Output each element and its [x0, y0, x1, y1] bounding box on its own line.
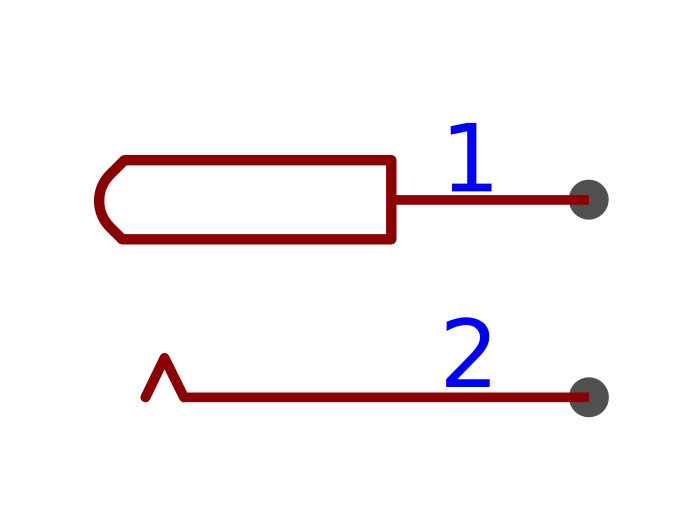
pin 1 wire — [392, 195, 590, 205]
pin number 1 — [451, 123, 492, 192]
connector J1 sleeve body (plug outline) — [99, 160, 391, 239]
pin number 2 — [446, 317, 490, 387]
pin 1 end dot — [569, 180, 609, 220]
pin 2 end dot — [569, 377, 609, 417]
pin 2 wire — [184, 392, 589, 402]
tip contact chevron — [146, 358, 185, 397]
